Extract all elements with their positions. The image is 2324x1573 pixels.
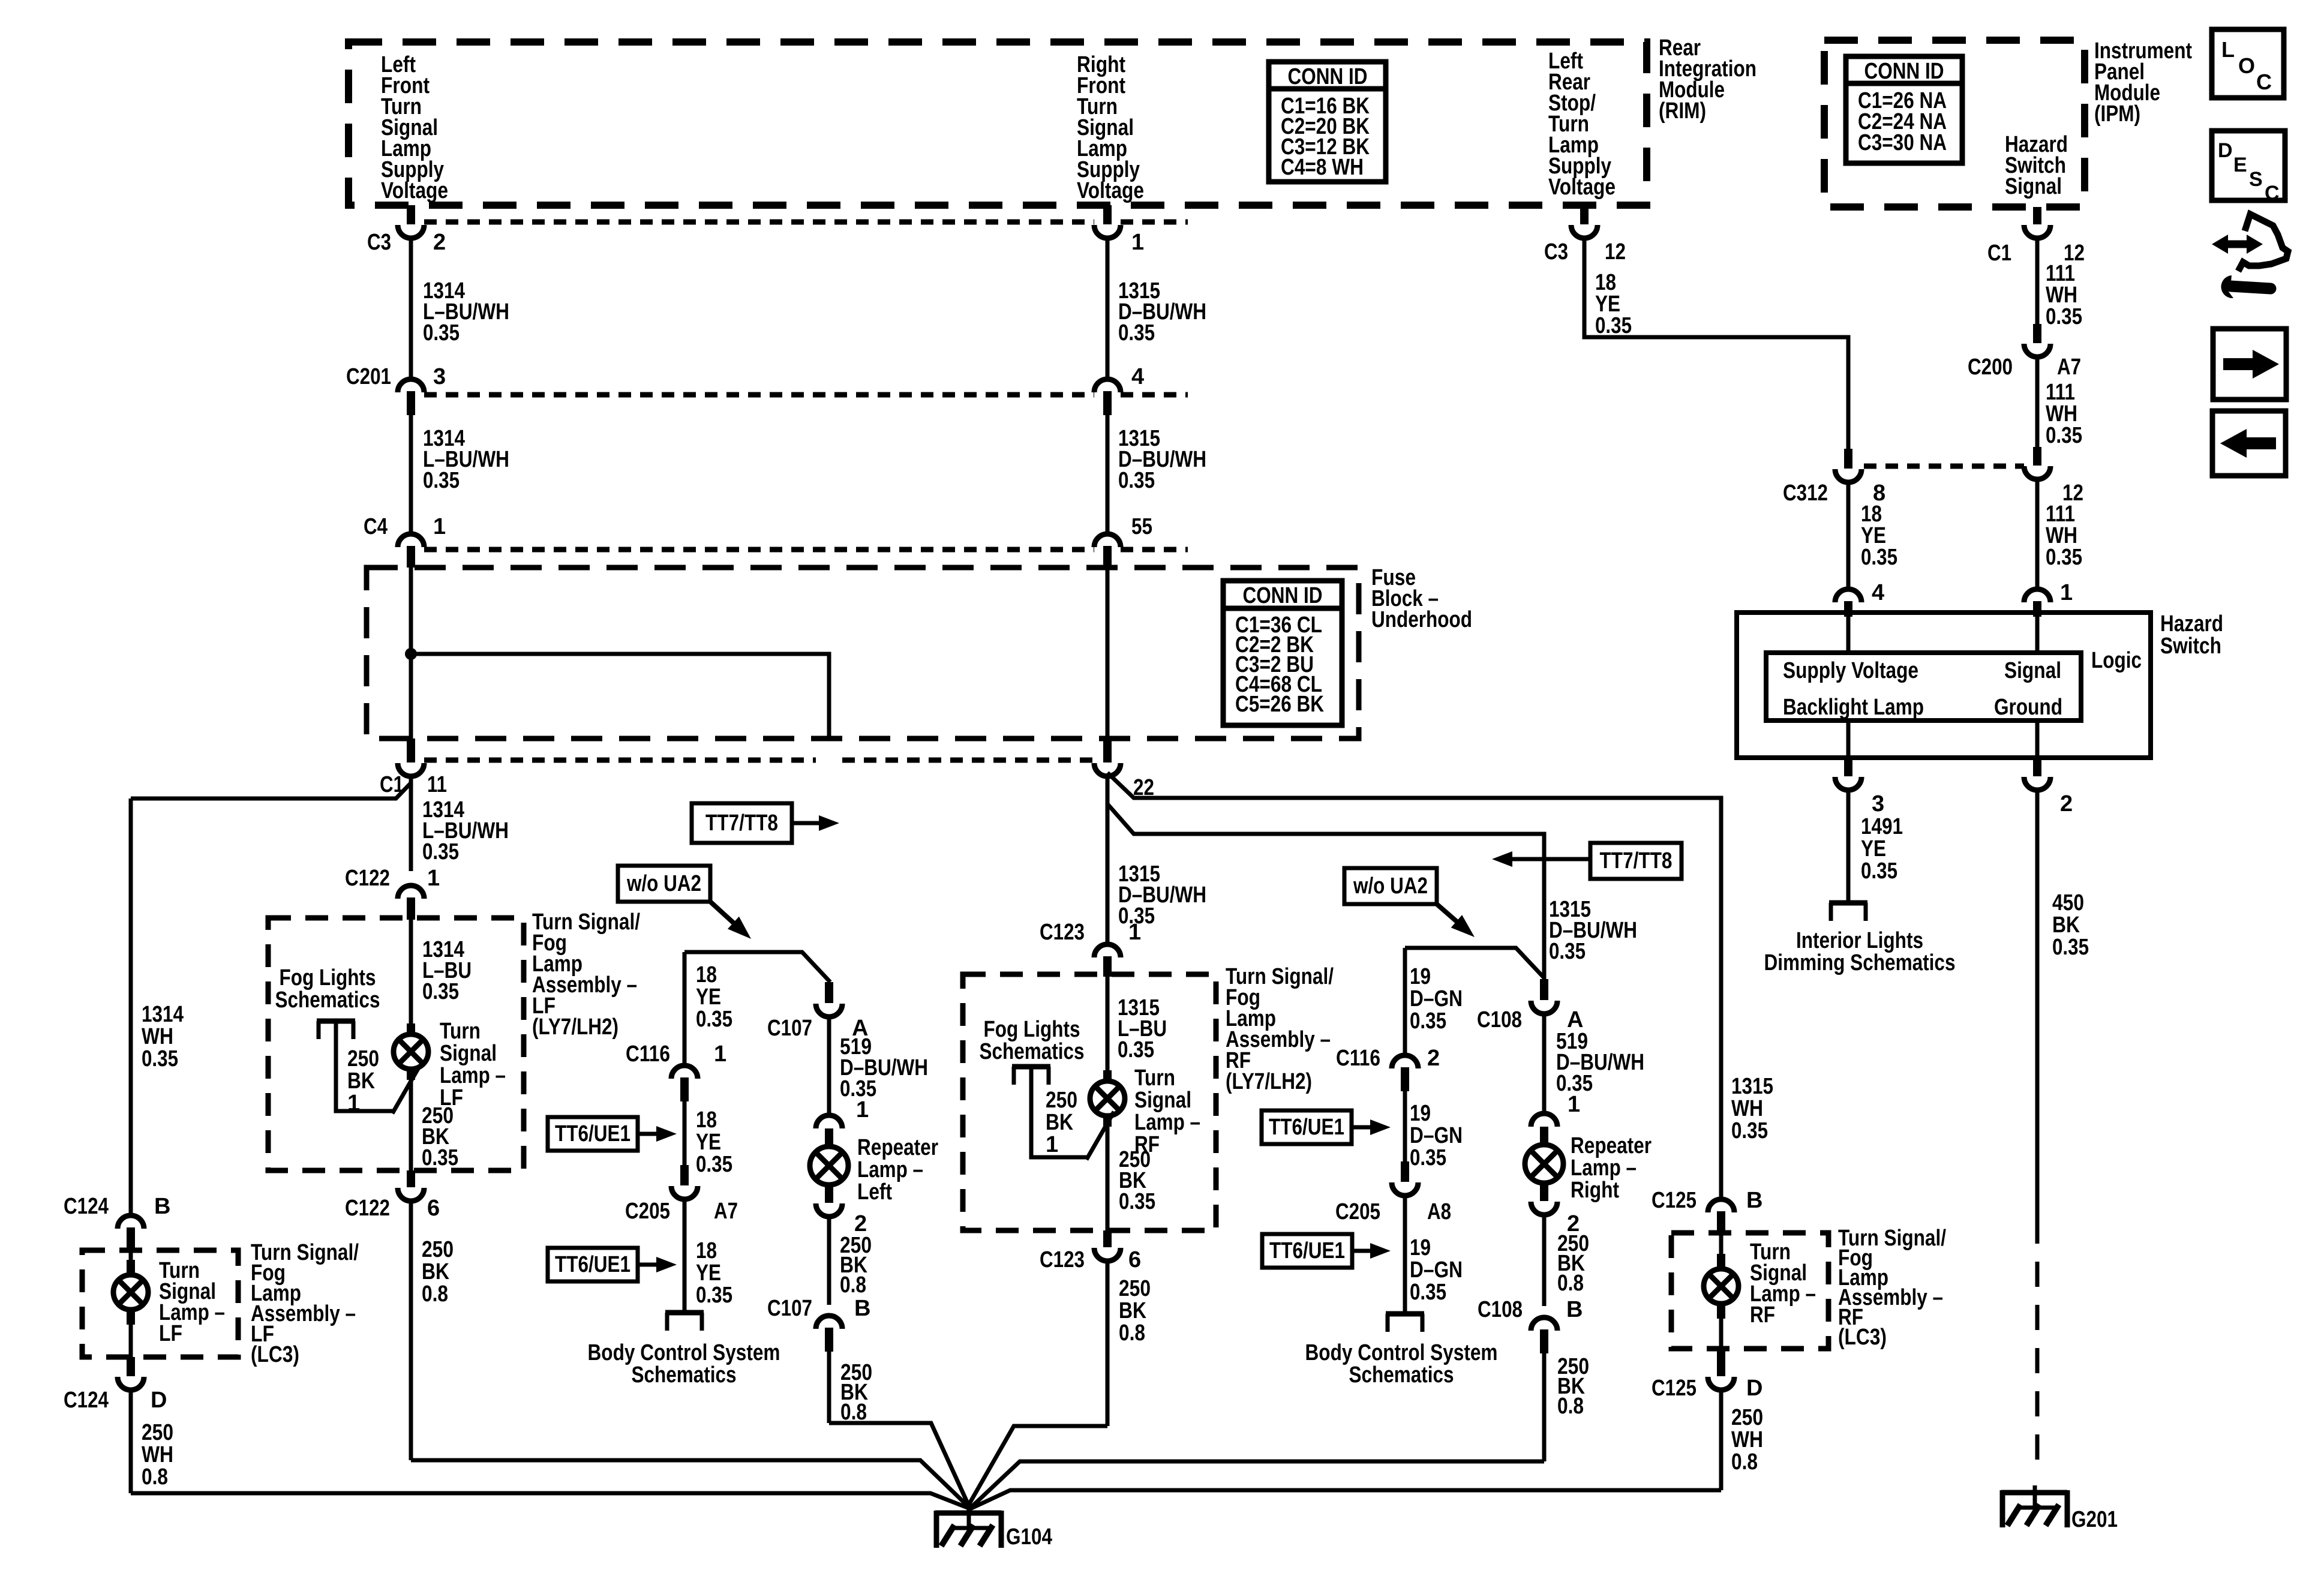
svg-text:250: 250 [1046, 1088, 1077, 1113]
svg-text:0.35: 0.35 [696, 1007, 732, 1032]
svg-text:4: 4 [1131, 364, 1144, 389]
svg-text:Signal: Signal [1134, 1088, 1191, 1113]
lamp Turn Signal Lamp - RF (LC3) [1719, 1235, 1724, 1265]
svg-text:Turn: Turn [440, 1019, 481, 1044]
icon box left-arrow [2212, 411, 2286, 476]
connector C1 pin 22 [1103, 739, 1112, 763]
wire C205 to body control bracket (left) [683, 1198, 687, 1313]
svg-text:1491: 1491 [1861, 814, 1903, 839]
svg-text:Signal: Signal [440, 1041, 497, 1066]
CONN ID table (Fuse Block) [1223, 581, 1342, 725]
lamp Repeater Lamp - Right [1525, 1145, 1563, 1183]
module box Instrument Panel Module (IPM) [1824, 40, 2085, 207]
connector hazard switch pin 1 [2024, 589, 2050, 602]
schematic ref bracket (right fog lights) [1012, 1064, 1050, 1070]
ground G104 [935, 1511, 1001, 1516]
callout box w/o UA2 (right) [1344, 868, 1437, 904]
svg-text:C108: C108 [1477, 1007, 1522, 1032]
module box Turn Signal/Fog Lamp Assembly - LF (LC3) [82, 1250, 238, 1357]
svg-text:0.35: 0.35 [422, 839, 459, 864]
svg-text:18: 18 [696, 1107, 717, 1133]
wire 111 WH 0.35 segment 3 [2035, 480, 2040, 590]
wire 450 BK 0.35 solid part [2035, 789, 2040, 1218]
svg-text:C122: C122 [345, 1196, 390, 1221]
svg-text:C4: C4 [364, 514, 388, 539]
svg-text:C124: C124 [64, 1388, 109, 1413]
wire from fog-lights bracket to lamp (right) [1031, 1067, 1086, 1157]
arrow TT6/UE1 to wire (left upper) [638, 1132, 659, 1136]
svg-text:A8: A8 [1427, 1199, 1451, 1224]
svg-text:B: B [1746, 1188, 1762, 1213]
module box Turn Signal/Fog Lamp Assembly - RF (LC3) [1671, 1233, 1828, 1349]
connector C123 pin 1 [1094, 944, 1121, 957]
svg-text:Signal: Signal [2005, 174, 2062, 199]
component box Hazard Switch [1737, 613, 2151, 758]
svg-text:C205: C205 [625, 1199, 670, 1224]
wire 1314 L-BU/WH segment [409, 237, 413, 380]
wire branch to repeater feed (lower horizontal) [1107, 804, 1544, 979]
lamp Turn Signal Lamp - RF (fog box) [1103, 1070, 1112, 1082]
wire C312 to hazard switch [1846, 481, 1851, 590]
svg-text:4: 4 [1872, 580, 1884, 605]
svg-text:0.35: 0.35 [1118, 1037, 1154, 1062]
wire 250 WH 0.8 to ground [129, 1389, 133, 1493]
wire 111 WH 0.35 segment 2 [2035, 357, 2040, 447]
svg-text:C125: C125 [1652, 1188, 1697, 1213]
svg-text:C125: C125 [1652, 1376, 1697, 1401]
callout box TT6/UE1 (left lower) [548, 1248, 638, 1281]
wire branch to C124 (diagonal+horizontal) [131, 783, 411, 798]
svg-text:YE: YE [1861, 836, 1886, 861]
svg-text:C116: C116 [1336, 1046, 1380, 1071]
svg-text:0.35: 0.35 [423, 320, 460, 346]
svg-text:Schematics: Schematics [1349, 1362, 1454, 1388]
svg-text:Hazard: Hazard [2160, 611, 2223, 637]
svg-text:0.35: 0.35 [1861, 858, 1897, 884]
svg-text:WH: WH [1731, 1096, 1763, 1121]
svg-text:2: 2 [433, 230, 446, 255]
svg-text:0.8: 0.8 [1557, 1271, 1584, 1296]
svg-text:WH: WH [142, 1442, 173, 1467]
connector C4 pin 1 (fuse block) [398, 534, 424, 547]
svg-text:0.35: 0.35 [1410, 1008, 1446, 1034]
schematic ref bracket (left fog lights) [317, 1019, 355, 1024]
wire 1314 L-BU/WH below C1 [409, 775, 413, 871]
wire from fog-lights bracket to lamp (left) [336, 1021, 392, 1111]
wire inside fuse block (right) [1106, 568, 1110, 741]
svg-text:0.8: 0.8 [1119, 1320, 1145, 1346]
wire 18 YE 0.35 (left rear) [1584, 237, 1848, 449]
connector C3 pin 1 (right front) [1103, 205, 1112, 224]
svg-text:Ground: Ground [1994, 695, 2062, 720]
repeater lamp right connector bottom [1540, 1183, 1548, 1201]
svg-text:C116: C116 [626, 1041, 670, 1067]
svg-text:2: 2 [2060, 791, 2073, 816]
svg-text:S: S [2249, 168, 2263, 191]
svg-text:0.35: 0.35 [1118, 468, 1155, 493]
connector C116 pin 1 [671, 1065, 698, 1079]
wire 250 BK 0.8 (left repeater) [827, 1217, 831, 1305]
svg-text:B: B [854, 1296, 870, 1321]
svg-text:BK: BK [422, 1259, 449, 1284]
svg-text:C3: C3 [1544, 239, 1568, 265]
svg-text:0.8: 0.8 [1557, 1394, 1584, 1419]
svg-text:0.8: 0.8 [840, 1272, 866, 1298]
svg-text:250: 250 [422, 1237, 454, 1262]
callout box w/o UA2 (left) [618, 866, 710, 902]
svg-text:B: B [1566, 1297, 1583, 1322]
svg-text:Schematics: Schematics [275, 987, 380, 1013]
svg-text:0.35: 0.35 [1410, 1145, 1446, 1170]
arrow TT7/TT8 left [1510, 857, 1590, 861]
svg-text:(LC3): (LC3) [1838, 1325, 1887, 1350]
svg-text:Lamp –: Lamp – [857, 1157, 923, 1182]
svg-text:Right: Right [1571, 1178, 1619, 1203]
lamp Repeater Lamp - Left [810, 1146, 848, 1185]
wire left-front ground horizontal to G104 [411, 1460, 969, 1507]
svg-text:C4=8 WH: C4=8 WH [1281, 155, 1364, 180]
arrow from w/o UA2 (right) [1437, 904, 1458, 923]
schematic ref bracket Body Control (left) [665, 1310, 704, 1316]
connector line C4/C55 (fuse block top) [424, 547, 1094, 553]
svg-text:TT7/TT8: TT7/TT8 [1600, 848, 1673, 873]
svg-text:Schematics: Schematics [632, 1362, 737, 1388]
svg-text:CONN ID: CONN ID [1243, 583, 1323, 608]
wire C108B ground run to G104 [969, 1461, 1544, 1509]
svg-text:1: 1 [714, 1041, 726, 1067]
svg-text:C: C [2265, 182, 2280, 205]
svg-text:C122: C122 [345, 866, 390, 891]
svg-text:C201: C201 [346, 364, 391, 389]
svg-text:C312: C312 [1783, 481, 1828, 506]
svg-text:2: 2 [1427, 1046, 1440, 1071]
svg-text:Supply Voltage: Supply Voltage [1783, 658, 1918, 683]
svg-text:250: 250 [1119, 1276, 1151, 1301]
svg-text:C: C [2256, 70, 2272, 94]
svg-text:Lamp –: Lamp – [1571, 1155, 1637, 1181]
svg-text:Logic: Logic [2091, 648, 2142, 673]
CONN ID table (IPM) [1846, 56, 1962, 163]
wire 1491 YE 0.35 [1846, 789, 1851, 903]
svg-text:1: 1 [1568, 1092, 1580, 1117]
svg-text:0.35: 0.35 [1410, 1280, 1446, 1305]
svg-text:Underhood: Underhood [1371, 607, 1472, 632]
svg-text:BK: BK [347, 1068, 375, 1094]
wire into lamp (left fog box) [409, 920, 413, 1034]
connector line C1 (pins 11/12/22) [424, 758, 816, 763]
connector C116 pin 2 [1392, 1055, 1418, 1068]
svg-text:3: 3 [433, 364, 446, 389]
connector C107 pin B [816, 1316, 842, 1329]
svg-text:18: 18 [696, 962, 717, 987]
wire between C116 and C205 (right) [1403, 1091, 1407, 1161]
svg-text:A7: A7 [2057, 355, 2081, 380]
svg-text:D–GN: D–GN [1410, 986, 1463, 1011]
connector C201 pin 4 [1094, 379, 1121, 392]
svg-text:(RIM): (RIM) [1659, 98, 1706, 124]
repeater lamp right connector top [1531, 1113, 1557, 1127]
svg-text:D: D [1746, 1376, 1762, 1401]
svg-text:Dimming Schematics: Dimming Schematics [1764, 950, 1956, 975]
wire C107B ground run to G104 [829, 1423, 969, 1506]
svg-text:E: E [2233, 154, 2247, 176]
wire 250 WH 0.8 (C125 D) [1719, 1389, 1724, 1490]
wire 250 BK 0.8 to ground (right front) [1106, 1260, 1110, 1426]
module box Turn Signal/Fog Lamp Assembly - LF (LY7/LH2) [fog lights box] [268, 918, 524, 1170]
svg-text:0.35: 0.35 [1119, 1189, 1155, 1214]
svg-text:WH: WH [1731, 1427, 1763, 1452]
CONN ID table (RIM) [1269, 62, 1386, 182]
junction node in fuse block [405, 648, 417, 660]
svg-text:Lamp –: Lamp – [1134, 1110, 1200, 1135]
svg-text:BK: BK [2052, 912, 2080, 938]
connector hazard switch pin 4 [1835, 589, 1861, 602]
svg-text:0.35: 0.35 [2046, 423, 2082, 448]
wire branch down to C124 (far left) [129, 798, 133, 1214]
wire below lamp to C123 pin 6 [1106, 1116, 1110, 1230]
wire 450 BK dashed part to G201 [2035, 1218, 2040, 1471]
connector line C312/C200 (hazard area) [1864, 464, 2024, 469]
wire 250 BK 0.8 (right repeater) [1542, 1215, 1547, 1306]
svg-text:WH: WH [142, 1024, 173, 1049]
svg-text:1: 1 [1046, 1132, 1058, 1157]
svg-text:0.35: 0.35 [1549, 939, 1586, 964]
wire branch to hazard feed (upper horizontal) [1107, 773, 1721, 1201]
svg-text:1315: 1315 [1731, 1074, 1773, 1099]
wire 1315 D-BU/WH segment 2 [1106, 415, 1110, 535]
connector C3 pin 12 (left rear) [1580, 205, 1589, 224]
connector C205 pin A7 [680, 1165, 689, 1185]
wire C107B to ground [827, 1352, 831, 1423]
connector C124 pin D [127, 1357, 135, 1376]
wire C107A to repeater (left) [827, 1016, 831, 1115]
svg-text:Schematics: Schematics [980, 1039, 1085, 1064]
connector C125 pin B [1708, 1199, 1734, 1212]
svg-text:(LY7/LH2): (LY7/LH2) [532, 1014, 618, 1040]
svg-text:(LC3): (LC3) [251, 1342, 299, 1367]
callout box TT6/UE1 (right lower) [1262, 1234, 1352, 1268]
svg-text:0.35: 0.35 [1595, 313, 1632, 338]
svg-text:1: 1 [856, 1097, 869, 1122]
svg-text:0.35: 0.35 [1118, 320, 1155, 346]
svg-text:C124: C124 [64, 1194, 109, 1219]
svg-text:C123: C123 [1040, 1247, 1085, 1272]
svg-text:Turn: Turn [1134, 1065, 1175, 1091]
svg-text:L: L [2221, 37, 2235, 62]
wire below lamp to C122 pin 6 [409, 1069, 413, 1170]
svg-text:TT6/UE1: TT6/UE1 [555, 1252, 630, 1277]
svg-text:Voltage: Voltage [1548, 175, 1616, 200]
svg-text:YE: YE [696, 1260, 721, 1286]
svg-text:(IPM): (IPM) [2094, 101, 2140, 127]
svg-text:Left: Left [857, 1179, 892, 1205]
module box Rear Integration Module (RIM) [349, 42, 1647, 205]
svg-text:6: 6 [1128, 1247, 1141, 1272]
icon vehicle-direction with wrench [2212, 235, 2228, 254]
svg-text:0.35: 0.35 [2046, 545, 2082, 570]
svg-text:C107: C107 [767, 1296, 812, 1321]
connector C124 pin B [118, 1215, 144, 1229]
svg-text:A7: A7 [714, 1199, 738, 1224]
svg-text:19: 19 [1410, 1101, 1431, 1126]
svg-text:C3: C3 [367, 230, 391, 255]
svg-text:19: 19 [1410, 964, 1431, 989]
svg-text:Lamp –: Lamp – [440, 1063, 506, 1088]
icon box DESC [2212, 131, 2285, 200]
svg-text:w/o UA2: w/o UA2 [626, 871, 701, 896]
svg-text:1: 1 [1128, 920, 1141, 945]
svg-text:250: 250 [142, 1420, 173, 1445]
connector C108 pin A [1540, 979, 1548, 1000]
svg-text:BK: BK [1046, 1110, 1073, 1135]
arrow from w/o UA2 (left) [710, 902, 735, 924]
svg-text:0.35: 0.35 [1731, 1118, 1768, 1143]
svg-text:G201: G201 [2071, 1507, 2118, 1532]
svg-text:Voltage: Voltage [381, 178, 448, 203]
svg-text:12: 12 [1605, 239, 1626, 265]
svg-text:w/o UA2: w/o UA2 [1353, 873, 1428, 899]
svg-text:BK: BK [1119, 1298, 1146, 1323]
connector C200 pin A7 [2033, 324, 2041, 343]
svg-text:19: 19 [1410, 1235, 1431, 1260]
callout box TT7/TT8 (right) [1590, 843, 1682, 879]
svg-text:250: 250 [1731, 1405, 1763, 1430]
wire left front lamp supply from RIM [409, 203, 413, 208]
svg-text:Backlight Lamp: Backlight Lamp [1783, 695, 1924, 720]
wire C108B to ground [1542, 1353, 1547, 1461]
connector C125 pin D [1717, 1349, 1725, 1376]
connector C1 pin 12 (IPM) [2033, 207, 2041, 224]
svg-text:1: 1 [433, 514, 446, 539]
ground G201 [2001, 1490, 2067, 1496]
connector hazard switch pin 3 [1844, 758, 1852, 776]
svg-text:C5=26 BK: C5=26 BK [1235, 692, 1324, 717]
svg-text:0.35: 0.35 [422, 979, 459, 1004]
connector C201 pin 3 [398, 379, 424, 392]
connector C1 pin 11 [407, 739, 415, 763]
svg-text:D: D [151, 1388, 167, 1413]
svg-text:Repeater: Repeater [857, 1135, 938, 1160]
connector line C3 (pins 2/1) [424, 220, 1094, 225]
svg-text:Fog Lights: Fog Lights [280, 965, 376, 990]
svg-text:3: 3 [1872, 791, 1884, 816]
schematic ref bracket Body Control (right) [1386, 1311, 1424, 1317]
svg-text:C107: C107 [767, 1016, 812, 1041]
connector hazard switch pin 2 [2033, 758, 2041, 776]
wire into hazard logic (right) [2035, 613, 2040, 653]
svg-text:TT7/TT8: TT7/TT8 [705, 810, 778, 836]
svg-text:TT6/UE1: TT6/UE1 [1269, 1115, 1344, 1140]
svg-text:C123: C123 [1040, 920, 1085, 945]
connector C205 pin A8 [1401, 1161, 1409, 1182]
schematic ref bracket Interior Lights [1829, 900, 1867, 906]
arrow TT7/TT8 right [792, 821, 821, 825]
wire out of hazard logic (right) [2035, 721, 2040, 758]
svg-text:0.8: 0.8 [1731, 1449, 1758, 1475]
svg-text:250: 250 [347, 1046, 379, 1071]
wire C108A to repeater (right) [1542, 1013, 1547, 1113]
svg-text:55: 55 [1131, 514, 1152, 539]
connector C312 pin 12 (IPM wire) [2033, 447, 2041, 466]
arrow TT6/UE1 to wire (left lower) [638, 1263, 659, 1267]
svg-text:0.35: 0.35 [696, 1152, 732, 1177]
wire 1315 D-BU/WH segment [1106, 237, 1110, 380]
repeater lamp left connector bottom [825, 1185, 833, 1203]
svg-text:0.35: 0.35 [696, 1283, 732, 1308]
svg-text:Switch: Switch [2160, 634, 2221, 659]
wire branch to pin 12 inside fuse block [411, 654, 829, 741]
svg-text:0.35: 0.35 [1861, 545, 1897, 570]
svg-text:1: 1 [347, 1091, 360, 1116]
svg-text:TT6/UE1: TT6/UE1 [555, 1121, 630, 1146]
module box Turn Signal/Fog Lamp Assembly - RF (LY7/LH2) [fog lights box] [963, 974, 1216, 1230]
svg-text:0.8: 0.8 [142, 1464, 168, 1490]
svg-text:450: 450 [2052, 890, 2084, 915]
svg-text:O: O [2238, 53, 2255, 78]
connector line C201 (pins 3/4) [424, 392, 1094, 398]
wire C125D ground run to G104 [969, 1490, 1721, 1509]
connector C123 pin 6 [1103, 1230, 1112, 1247]
callout box TT7/TT8 (left) [692, 803, 792, 843]
svg-text:Signal: Signal [2004, 658, 2061, 683]
wire 111 WH 0.35 segment 1 [2035, 237, 2040, 324]
connector C108 pin B [1531, 1317, 1557, 1331]
svg-text:1: 1 [2060, 580, 2073, 605]
svg-text:Voltage: Voltage [1077, 178, 1144, 203]
svg-text:0.35: 0.35 [142, 1046, 178, 1071]
wire w/o UA2 branch (left) [684, 952, 830, 982]
wire out of hazard logic (left) [1846, 721, 1851, 758]
svg-text:LF: LF [159, 1321, 182, 1346]
repeater lamp left connector top [816, 1115, 842, 1128]
svg-text:Body Control System: Body Control System [588, 1340, 780, 1365]
svg-text:C3=30 NA: C3=30 NA [1858, 130, 1947, 155]
connector C122 pin 6 [407, 1170, 415, 1187]
wire right-front ground run to G104 [969, 1426, 1107, 1505]
svg-text:0.35: 0.35 [2052, 935, 2089, 960]
svg-text:Body Control System: Body Control System [1305, 1340, 1498, 1365]
svg-text:18: 18 [696, 1238, 717, 1263]
logic box inside hazard switch [1766, 653, 2081, 721]
svg-text:0.35: 0.35 [422, 1145, 458, 1170]
wire into lamp (right fog box) [1106, 977, 1110, 1081]
svg-text:CONN ID: CONN ID [1864, 59, 1944, 84]
callout box TT6/UE1 (right upper) [1262, 1110, 1352, 1144]
svg-text:C108: C108 [1478, 1297, 1523, 1322]
lamp Turn Signal Lamp - LF (LC3) [129, 1251, 133, 1271]
svg-text:1314: 1314 [142, 1002, 184, 1027]
wire 1314 L-BU/WH segment 2 [409, 415, 413, 535]
icon box LOC [2212, 29, 2284, 98]
wire 250 BK 0.8 to ground run (left front) [409, 1200, 413, 1460]
connector C312 pin 8 [1844, 449, 1852, 469]
connector C122 pin 1 [398, 885, 424, 899]
svg-text:Fog Lights: Fog Lights [984, 1017, 1080, 1042]
svg-text:D–GN: D–GN [1410, 1257, 1463, 1283]
arrow TT6/UE1 to wire (right upper) [1352, 1125, 1373, 1130]
connector C3 pin 2 [407, 205, 415, 224]
svg-text:C205: C205 [1335, 1199, 1380, 1224]
svg-text:D: D [2218, 139, 2233, 162]
wire into hazard logic (left) [1846, 613, 1851, 653]
arrow TT6/UE1 to wire (right lower) [1352, 1249, 1373, 1253]
svg-text:Repeater: Repeater [1571, 1133, 1652, 1158]
svg-text:TT6/UE1: TT6/UE1 [1269, 1238, 1345, 1263]
svg-text:C200: C200 [1968, 355, 2013, 380]
svg-text:11: 11 [427, 772, 447, 797]
svg-text:1: 1 [1131, 230, 1144, 255]
svg-text:G104: G104 [1006, 1524, 1052, 1550]
